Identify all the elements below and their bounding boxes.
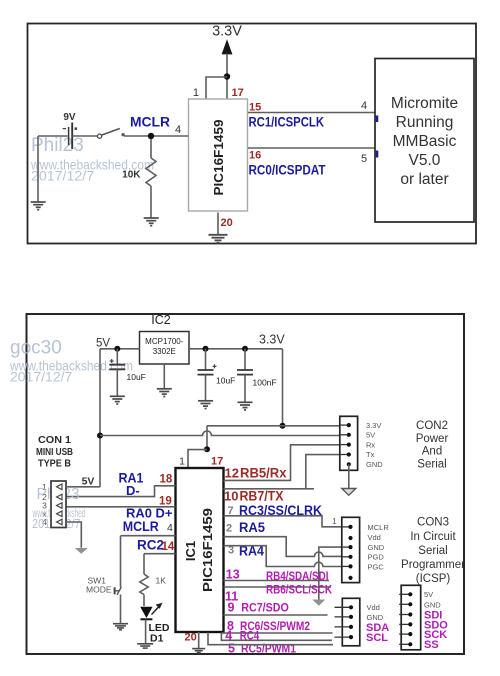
svg-text:V5.0: V5.0	[409, 152, 441, 169]
svg-text:16: 16	[249, 150, 261, 162]
resistor R2 1K	[140, 554, 148, 606]
junction dot 3.3V	[280, 423, 286, 429]
3.3V wire down to IC1	[206, 426, 208, 450]
connector CON3	[342, 517, 360, 582]
svg-text:CON2: CON2	[416, 420, 448, 432]
svg-text:5: 5	[361, 153, 367, 165]
wire USB D+ to pin 19	[66, 506, 176, 508]
ground regulator	[157, 389, 172, 397]
svg-text:14: 14	[162, 541, 175, 553]
svg-text:PGC: PGC	[368, 562, 385, 571]
wire pin 14 to R2	[144, 553, 176, 555]
svg-text:RC1/ICSPCLK: RC1/ICSPCLK	[249, 115, 325, 130]
svg-text:CON 1: CON 1	[38, 434, 71, 446]
watermark Phil23 lower block	[32, 486, 86, 531]
svg-text:Rx: Rx	[366, 440, 375, 449]
ground LED	[137, 644, 153, 648]
ground C3	[238, 402, 253, 410]
CON2 title	[416, 420, 449, 470]
svg-text:10: 10	[224, 488, 238, 503]
blue pin mark 5	[376, 151, 379, 158]
svg-text:RB7/TX: RB7/TX	[240, 489, 284, 504]
svg-text:9V: 9V	[63, 112, 76, 123]
wire pin 20 down	[217, 213, 219, 235]
svg-text:20: 20	[185, 632, 197, 644]
wire pin 11	[224, 586, 332, 588]
battery BT1 9V	[63, 123, 78, 150]
svg-text:5: 5	[228, 641, 235, 655]
svg-text:3.3V: 3.3V	[259, 333, 285, 347]
watermark goc30 block	[9, 338, 133, 385]
pin 20 wire IC1	[198, 632, 200, 648]
svg-text:18: 18	[160, 474, 173, 486]
svg-text:15: 15	[249, 102, 261, 114]
blue pin mark 4	[376, 116, 379, 123]
svg-text:1: 1	[193, 87, 199, 99]
CON3 pin name labels	[368, 523, 390, 572]
wire pin 5 RC5	[208, 633, 333, 645]
wire to IC1 pin 1	[188, 450, 207, 468]
svg-text:Serial: Serial	[418, 545, 447, 557]
wire pin 4 RC4	[221, 633, 332, 641]
svg-text:SCL: SCL	[366, 632, 388, 644]
svg-text:4: 4	[361, 100, 367, 112]
junction dot supply	[224, 73, 230, 79]
svg-text:goc30: goc30	[10, 338, 62, 359]
wire pin 13	[224, 580, 330, 582]
svg-text:10K: 10K	[122, 170, 141, 181]
ground C2	[198, 401, 213, 409]
svg-text:RC7/SDO: RC7/SDO	[241, 600, 288, 614]
wire battery down	[37, 136, 39, 202]
5V wire to CON2 with hump	[100, 431, 340, 436]
wire to pin 1	[206, 77, 227, 99]
svg-text:2: 2	[226, 523, 232, 535]
junction dot 5V/USB	[97, 433, 103, 439]
ground C1	[110, 396, 125, 404]
svg-text:MCLR: MCLR	[123, 519, 159, 534]
wire battery to switch	[73, 135, 98, 137]
svg-text:Phil23: Phil23	[31, 135, 84, 156]
capacitor C1 10uF	[109, 349, 125, 396]
svg-text:PIC16F1459: PIC16F1459	[200, 508, 215, 592]
ground CON2 arrow	[342, 489, 356, 496]
LED D1	[140, 603, 162, 620]
svg-text:2017/12/7: 2017/12/7	[10, 369, 72, 385]
svg-text:RB4/SDA/SDI: RB4/SDA/SDI	[266, 569, 329, 583]
svg-text:3.3V: 3.3V	[366, 421, 381, 430]
svg-text:5V: 5V	[366, 431, 375, 440]
svg-text:5V: 5V	[96, 338, 110, 350]
svg-text:Serial: Serial	[417, 458, 446, 470]
svg-text:IC2: IC2	[151, 313, 171, 327]
resistor R1 10K	[146, 139, 156, 218]
svg-text:SS: SS	[424, 639, 439, 651]
svg-text:RC5/PWM1: RC5/PWM1	[241, 641, 296, 655]
frame of schematic 1	[28, 24, 477, 244]
svg-text:100nF: 100nF	[253, 378, 277, 388]
USB pin numbers	[42, 482, 47, 527]
ground SW1	[113, 624, 128, 630]
svg-text:RC0/ICSPDAT: RC0/ICSPDAT	[249, 163, 327, 178]
svg-text:12: 12	[225, 465, 239, 480]
IC U2 IC1 PIC16F1459	[176, 468, 224, 632]
wire MCLR node to chip pin 4	[124, 135, 189, 137]
svg-text:In Circuit: In Circuit	[410, 531, 456, 543]
wire pin 16 to Micromite pin 5	[248, 147, 375, 149]
svg-text:3302E: 3302E	[153, 347, 176, 356]
wire pin 3 to CON3 PGC	[224, 546, 342, 567]
wire USB D- to pin 18	[66, 486, 176, 497]
junction node MCLR	[148, 133, 154, 139]
capacitor C2 10uF	[198, 349, 217, 401]
switch SW1 MODE	[115, 536, 122, 624]
svg-text:5V: 5V	[82, 476, 95, 488]
junction dot IC1 supply	[204, 446, 210, 452]
3.3V horizontal wire to CON2	[207, 425, 340, 427]
wire CON2 GND down	[348, 464, 350, 488]
svg-text:IC1: IC1	[183, 541, 198, 561]
svg-text:4: 4	[175, 124, 181, 136]
svg-text:Vdd: Vdd	[368, 533, 381, 542]
ground USB arrow	[75, 548, 88, 554]
svg-text:4: 4	[167, 522, 173, 534]
junction dot cap C1	[114, 346, 120, 352]
wire pin 10 to CON2 Tx	[224, 455, 340, 489]
IC U1 PIC16F1459	[189, 99, 248, 211]
wire pin 9	[224, 614, 328, 616]
svg-text:CON3: CON3	[417, 517, 449, 529]
CON1 title	[36, 434, 73, 470]
ground battery	[31, 202, 46, 210]
wire pin 8	[222, 632, 333, 634]
ground CON3 arrow	[312, 600, 325, 606]
svg-text:5V: 5V	[424, 590, 433, 599]
svg-text:13: 13	[226, 567, 240, 581]
svg-text:10uF: 10uF	[127, 372, 146, 382]
svg-text:(ICSP): (ICSP)	[416, 573, 451, 585]
connector CON2	[340, 416, 358, 470]
svg-text:MODE: MODE	[86, 585, 112, 595]
svg-text:Vdd: Vdd	[367, 603, 380, 612]
wire switch to pin 4	[121, 535, 176, 537]
wire pin 15 to Micromite pin 4	[248, 112, 375, 114]
svg-text:Micromite: Micromite	[391, 95, 458, 112]
svg-text:RB5/Rx: RB5/Rx	[240, 465, 287, 480]
wire CON3 GND down	[319, 547, 342, 599]
svg-text:RC2: RC2	[137, 537, 164, 552]
svg-text:20: 20	[221, 217, 233, 229]
SW1 label	[86, 576, 112, 595]
wire USB pin4 to ground	[66, 522, 81, 548]
connector CON5 SPI	[399, 585, 421, 650]
connector CON1 mini USB	[51, 481, 66, 528]
svg-text:17: 17	[211, 456, 223, 468]
svg-text:9: 9	[228, 601, 235, 615]
wire USB pin1 5V	[66, 486, 100, 488]
svg-text:3.3V: 3.3V	[212, 24, 242, 40]
wire pin 7 to CON3 pin 1	[224, 516, 342, 527]
svg-text:GND: GND	[366, 460, 383, 469]
svg-text:Running: Running	[396, 114, 454, 131]
svg-text:GND: GND	[367, 613, 384, 622]
watermark Phil23 block	[30, 135, 154, 185]
svg-text:1: 1	[179, 456, 185, 468]
ground IC1 pin 20	[192, 649, 205, 653]
svg-text:2017/12/7: 2017/12/7	[31, 169, 94, 185]
svg-text:1: 1	[332, 517, 337, 526]
svg-text:GND: GND	[424, 600, 441, 609]
5V vertical wire	[99, 349, 101, 487]
svg-text:Power: Power	[416, 433, 449, 445]
svg-text:D-: D-	[126, 483, 140, 498]
junction dot cap C2	[203, 346, 209, 352]
svg-text:GND: GND	[368, 543, 385, 552]
connector CON4 I2C	[335, 598, 360, 646]
wire left to battery	[38, 135, 68, 137]
svg-text:MCLR: MCLR	[130, 115, 170, 130]
svg-text:PGD: PGD	[368, 553, 385, 562]
ground resistor	[144, 218, 159, 226]
svg-text:or later: or later	[400, 171, 448, 188]
CON4 pin name labels	[366, 603, 389, 644]
svg-text:MMBasic: MMBasic	[393, 133, 457, 150]
svg-text:D1: D1	[150, 633, 164, 645]
frame of schematic 2	[27, 314, 465, 654]
CON3 title	[401, 517, 465, 586]
svg-text:And: And	[422, 446, 442, 458]
3.3V power arrow	[222, 39, 233, 98]
svg-text:MCP1700-: MCP1700-	[145, 337, 184, 346]
switch S1	[98, 129, 125, 139]
wire pin 12 to CON2 Rx	[224, 445, 340, 481]
wire pin 2 to CON3 PGD	[224, 537, 342, 557]
svg-text:Programmer: Programmer	[401, 559, 465, 571]
CON2 pin name labels	[366, 421, 383, 469]
svg-text:RB6/SCL/SCK: RB6/SCL/SCK	[266, 582, 332, 596]
junction dot cap C3	[242, 346, 248, 352]
svg-text:PIC16F1459: PIC16F1459	[212, 119, 226, 195]
Micromite module box	[375, 59, 474, 223]
svg-text:Tx: Tx	[366, 450, 375, 459]
regulator IC2 MCP1700-3302E	[140, 332, 190, 365]
svg-text:MCLR: MCLR	[368, 523, 390, 532]
5V rail wire to regulator	[100, 348, 140, 350]
svg-text:MINI USB: MINI USB	[36, 446, 73, 458]
CON5 pin name labels	[424, 590, 448, 651]
ground pin 20	[209, 235, 228, 243]
wire LED to ground	[145, 620, 147, 644]
svg-text:17: 17	[232, 87, 244, 99]
svg-text:1K: 1K	[156, 576, 167, 586]
regulator ground wire	[163, 364, 165, 389]
svg-text:10uF: 10uF	[216, 376, 235, 386]
svg-text:RA5: RA5	[239, 520, 265, 535]
3.3V drop wire	[282, 349, 284, 426]
capacitor C3 100nF	[237, 349, 253, 402]
svg-text:TYPE B: TYPE B	[38, 458, 71, 470]
3.3V rail wire	[189, 348, 283, 350]
